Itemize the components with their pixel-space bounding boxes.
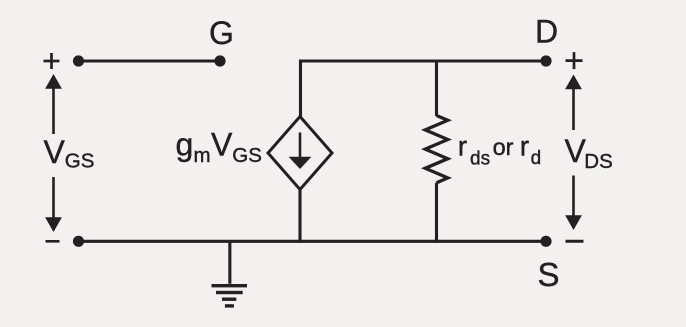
svg-text:d: d bbox=[531, 148, 542, 169]
svg-text:D: D bbox=[535, 14, 558, 50]
svg-text:GS: GS bbox=[232, 144, 262, 167]
svg-text:g: g bbox=[176, 127, 194, 163]
svg-text:m: m bbox=[194, 144, 211, 167]
svg-text:or: or bbox=[493, 134, 514, 160]
node S terminal dot bbox=[540, 236, 551, 247]
svg-text:GS: GS bbox=[65, 149, 95, 172]
svg-text:ds: ds bbox=[470, 149, 490, 170]
arrow inside current source bbox=[289, 133, 312, 170]
minus sign (VGS -) bbox=[46, 240, 60, 243]
svg-text:V: V bbox=[565, 133, 587, 169]
dependent current source U1 (diamond) bbox=[268, 117, 332, 190]
wire: current source bottom lead bbox=[298, 190, 301, 243]
svg-text:G: G bbox=[209, 15, 234, 51]
svg-text:r: r bbox=[458, 131, 467, 162]
wire: gate lead (top-left horizontal) bbox=[79, 59, 221, 62]
plus sign (VDS +) bbox=[566, 52, 583, 69]
wire: current source top lead bbox=[299, 60, 302, 118]
minus sign (VDS -) bbox=[566, 240, 584, 243]
node D terminal dot bbox=[540, 55, 551, 66]
svg-text:DS: DS bbox=[584, 150, 612, 173]
arrow VGS down bbox=[45, 177, 62, 232]
wire: resistor bottom lead bbox=[435, 183, 438, 243]
svg-text:V: V bbox=[44, 134, 66, 170]
wire: resistor top lead bbox=[435, 60, 438, 117]
node: VGS bottom terminal dot bbox=[73, 236, 84, 247]
wire: bottom rail bbox=[79, 240, 547, 243]
wire: top rail (D side) bbox=[301, 59, 547, 62]
ground bbox=[212, 241, 248, 307]
node: VGS top terminal dot bbox=[73, 55, 84, 66]
svg-text:r: r bbox=[520, 131, 529, 162]
svg-text:V: V bbox=[211, 127, 233, 163]
svg-text:S: S bbox=[537, 256, 559, 293]
node G terminal dot bbox=[214, 55, 225, 66]
arrow VDS up bbox=[565, 75, 582, 131]
plus sign (VGS +) bbox=[44, 53, 60, 69]
arrow VGS up bbox=[45, 74, 62, 134]
arrow VDS down bbox=[565, 176, 582, 231]
resistor rds (zigzag) bbox=[425, 116, 448, 183]
